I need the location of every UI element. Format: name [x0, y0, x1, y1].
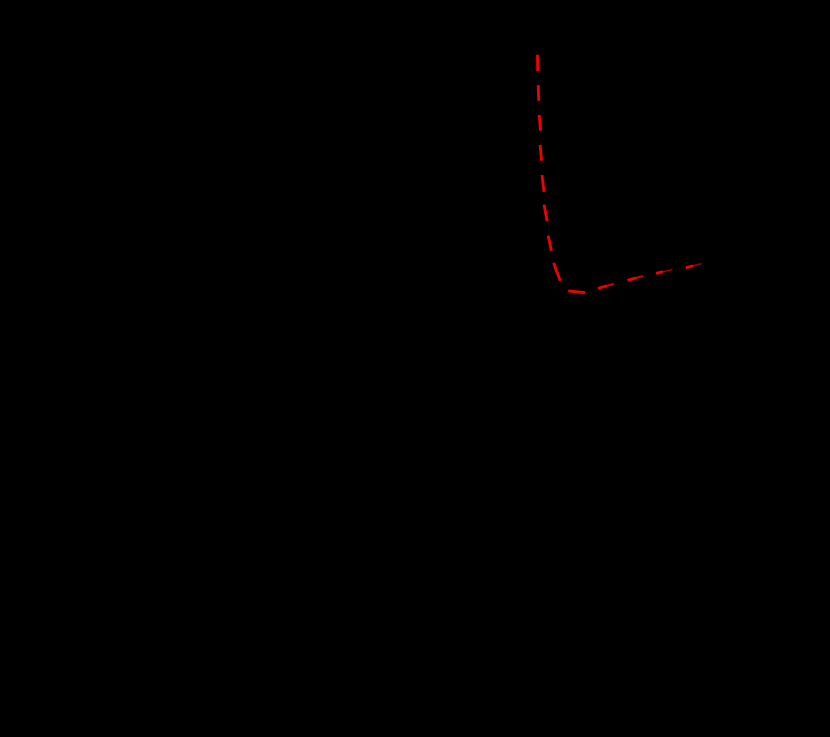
red dashed curve: dash 5 — [542, 175, 544, 192]
red dashed curve: dash 3 — [539, 115, 540, 131]
red dashed curve: dash 7 — [548, 236, 551, 251]
red dashed curve: dash 12 — [656, 272, 663, 274]
red dashed curve: dash 9 (bottom of curve) — [568, 291, 585, 293]
red dashed curve: dash 10 (rising tail) — [598, 286, 607, 289]
red dashed curve: dash 2 — [537, 85, 540, 101]
red dashed curve: dash 4 — [540, 145, 542, 161]
red dashed curve: dash 13 (right end) — [686, 266, 693, 268]
red dashed curve: dash 8 (start of bend) — [554, 263, 561, 281]
red dashed curve: dash 11 — [628, 278, 637, 280]
red dashed curve: dash 6 — [544, 205, 547, 222]
red dashed curve: dash 1 (top, vertical) — [536, 55, 539, 71]
